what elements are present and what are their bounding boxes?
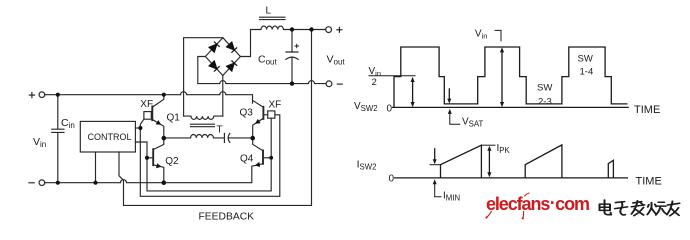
svg-text:0: 0: [387, 104, 393, 115]
svg-text:XF: XF: [140, 99, 153, 110]
svg-text:elecfans·com: elecfans·com: [486, 193, 589, 214]
svg-text:FEEDBACK: FEEDBACK: [199, 212, 255, 223]
svg-text:Q1: Q1: [167, 112, 181, 123]
svg-text:Q3: Q3: [240, 107, 254, 118]
svg-text:CONTROL: CONTROL: [88, 132, 132, 142]
svg-text:1-4: 1-4: [580, 67, 594, 78]
svg-text:Q4: Q4: [240, 153, 254, 164]
svg-text:XF: XF: [269, 100, 282, 111]
svg-text:TIME: TIME: [634, 104, 660, 116]
svg-text:TIME: TIME: [636, 175, 662, 187]
svg-text:2: 2: [372, 77, 377, 88]
svg-text:0: 0: [389, 173, 395, 184]
svg-text:2-3: 2-3: [538, 96, 552, 107]
svg-text:Q2: Q2: [165, 156, 179, 167]
svg-text:SW: SW: [537, 83, 552, 94]
svg-text:T: T: [217, 125, 223, 136]
svg-text:L: L: [266, 6, 272, 17]
svg-text:SW: SW: [578, 54, 593, 65]
